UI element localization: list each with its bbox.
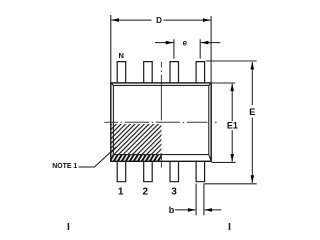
dimension D arrow left [111, 18, 119, 22]
bottom pin 3 [170, 161, 179, 181]
dimension E1 arrow up [230, 83, 234, 91]
dimension E1 arrow down [230, 154, 234, 162]
dimension e left arrow [155, 42, 173, 44]
svg-text:E: E [249, 107, 255, 118]
dimension E bottom extension line [204, 183, 256, 185]
body corner chamfers [111, 83, 114, 86]
svg-text:2: 2 [143, 186, 149, 197]
top pin 1 [117, 62, 126, 83]
dimension b right arrow [204, 209, 221, 211]
svg-text:b: b [169, 205, 175, 215]
vertical centerline [160, 62, 162, 168]
dimension b extension line left [195, 184, 197, 216]
package body outer outline [111, 83, 211, 161]
dimension E1 line [231, 84, 233, 162]
dimension E top extension line [206, 60, 257, 62]
dimension E1 top extension line [212, 82, 236, 84]
svg-text:E1: E1 [227, 121, 238, 131]
frame tick bottom right [229, 223, 231, 230]
dimension e extension line (pin 4 center) [199, 39, 201, 58]
svg-text:D: D [156, 16, 162, 25]
dimension D extension line right [210, 16, 212, 83]
svg-text:e: e [183, 39, 188, 48]
top pin 2 [144, 62, 153, 83]
svg-text:NOTE 1: NOTE 1 [52, 163, 77, 170]
dimension D arrow right [203, 18, 211, 22]
dimension E arrow up [251, 62, 255, 70]
top pin 4 [196, 62, 205, 83]
top pin 3 [170, 62, 179, 83]
dimension E line [251, 62, 253, 183]
dimension e extension line (pin 3 center) [173, 39, 175, 58]
hatched index area (note 1 region) [111, 124, 162, 155]
dimension D line [111, 19, 210, 21]
package body inner outline [111, 83, 211, 161]
hatched dense strip at body bottom edge [111, 155, 162, 162]
NOTE 1 leader line [79, 147, 117, 167]
dimension D extension line left [110, 15, 112, 83]
svg-text:N: N [118, 51, 123, 60]
bottom pin 4 [196, 161, 205, 181]
svg-text:3: 3 [171, 186, 177, 197]
frame tick bottom left [68, 223, 70, 230]
dimension e right arrow [201, 42, 221, 44]
dimension E arrow down [251, 175, 255, 183]
dimension b left arrow [175, 209, 196, 211]
bottom pin 1 [117, 161, 126, 181]
dimension b extension line right [203, 184, 205, 216]
dimension E1 bottom extension line [212, 161, 236, 163]
svg-text:1: 1 [118, 186, 124, 197]
bottom pin 2 [144, 161, 153, 181]
horizontal centerline [104, 121, 216, 123]
